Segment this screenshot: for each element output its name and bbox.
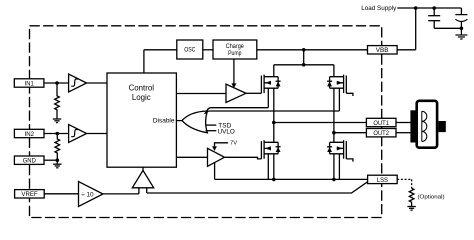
node OUT1 junction xyxy=(272,121,276,125)
svg-text:(Optional): (Optional) xyxy=(418,195,445,201)
op-amp divider div10 xyxy=(79,182,104,207)
svg-text:OUT2: OUT2 xyxy=(373,130,389,137)
wire divider to comparator xyxy=(103,193,139,195)
node bridge rail junction xyxy=(302,63,306,67)
node cap bottom junction xyxy=(460,27,464,31)
wire disable xyxy=(176,120,182,122)
svg-text:UVLO: UVLO xyxy=(218,128,235,135)
dashed package boundary xyxy=(30,26,382,218)
wire Q4 source lead xyxy=(338,154,340,180)
schmitt buffer A2 xyxy=(69,125,87,143)
ground optional xyxy=(407,207,415,211)
wire bridge top rail xyxy=(274,64,334,66)
wire VBB feed vertical xyxy=(415,8,417,50)
wire Q2 gate stub xyxy=(346,93,353,96)
wire buffer2 to control logic xyxy=(87,133,107,135)
wire Load Supply rail xyxy=(397,7,461,9)
node LSS right junction xyxy=(332,178,336,182)
wire IN2 to buffer xyxy=(44,133,69,135)
svg-text:OSC: OSC xyxy=(184,47,196,54)
svg-text:OUT1: OUT1 xyxy=(373,120,389,127)
wire buffer1 to control logic xyxy=(87,82,107,84)
wire Q1 source lead xyxy=(267,88,269,107)
wire hs driver to Q1 gate xyxy=(246,92,262,94)
svg-text:÷ 10: ÷ 10 xyxy=(81,191,94,198)
wire OUT2 line xyxy=(334,132,367,134)
ground supply xyxy=(455,28,467,39)
wire LSS to optional resistor xyxy=(397,179,411,188)
capacitor C1 xyxy=(428,8,440,28)
wire right bridge bus xyxy=(333,65,335,180)
wire VBB to bridge rail xyxy=(303,50,305,65)
pin IN1 xyxy=(14,79,44,87)
pin LSS xyxy=(368,175,398,183)
pin VBB xyxy=(368,46,398,54)
node VBB rail junction xyxy=(302,48,306,52)
svg-text:Pump: Pump xyxy=(228,50,242,57)
capacitor C2 polarized xyxy=(455,8,467,28)
wire comparator input stubs xyxy=(139,188,147,194)
wire Q3 source lead xyxy=(267,154,269,180)
svg-text:Control: Control xyxy=(129,83,155,92)
node IN1 junction xyxy=(55,81,59,85)
svg-text:LSS: LSS xyxy=(377,177,388,184)
node OUT2 junction xyxy=(332,131,336,135)
node load supply junction 1 xyxy=(414,6,418,10)
pin OUT1 xyxy=(366,118,396,126)
transistor Q4 low side right xyxy=(327,140,346,159)
block Control Logic xyxy=(107,73,176,167)
wire cap bottom rail xyxy=(434,27,461,29)
op-amp current comparator xyxy=(132,170,153,187)
node LSS left junction xyxy=(272,178,276,182)
wire line B hs right source xyxy=(205,111,340,114)
svg-text:Charge: Charge xyxy=(226,43,244,50)
op-amp low side driver xyxy=(208,148,225,166)
load motor right tab xyxy=(438,121,445,132)
transistor Q2 high side right xyxy=(327,75,346,94)
wire Q4 gate stub xyxy=(346,159,353,162)
wire line A hs left source xyxy=(207,108,268,111)
wire GND box xyxy=(44,159,57,161)
arrow 7V feed xyxy=(212,146,217,151)
inductor winding xyxy=(422,111,427,141)
pin OUT2 xyxy=(366,129,396,137)
pin GND xyxy=(14,156,44,164)
svg-text:Load Supply: Load Supply xyxy=(361,5,397,12)
resistor R2 pulldown IN2 xyxy=(55,134,60,161)
wire OSC to charge pump xyxy=(203,49,213,51)
pin IN2 xyxy=(14,129,44,137)
block Charge Pump xyxy=(213,40,257,59)
node IN2 junction xyxy=(56,132,60,136)
wire OUT1 to load xyxy=(396,122,410,124)
wire control logic to ls driver xyxy=(176,156,207,158)
gate OR disable xyxy=(182,111,207,133)
wire OUT1 line xyxy=(274,122,367,124)
wire VBB box to supply xyxy=(397,49,416,51)
wire IN1 to buffer xyxy=(44,82,69,84)
wire control logic to hs driver xyxy=(176,93,226,95)
wire 7V feed xyxy=(215,143,229,146)
schmitt buffer A1 xyxy=(69,74,87,92)
svg-text:GND: GND xyxy=(23,158,37,165)
svg-text:7V: 7V xyxy=(230,141,237,147)
node GND junction xyxy=(56,158,60,162)
svg-text:IN1: IN1 xyxy=(25,80,34,87)
transistor Q3 low side left xyxy=(261,140,280,159)
ground GND pin xyxy=(53,160,61,168)
node cap1 top junction xyxy=(432,6,436,10)
load motor body xyxy=(417,101,437,148)
arrow charge pump feed xyxy=(231,83,236,88)
wire charge pump to VBB xyxy=(257,49,368,51)
resistor R1 pulldown IN1 xyxy=(55,83,60,119)
wire charge pump to gate driver xyxy=(233,59,235,84)
svg-text:Logic: Logic xyxy=(132,93,151,102)
block OSC xyxy=(177,40,203,59)
wire sense line xyxy=(147,182,368,193)
svg-text:Disable: Disable xyxy=(153,117,175,124)
svg-text:IN2: IN2 xyxy=(25,131,35,138)
svg-text:VBB: VBB xyxy=(376,47,389,54)
resistor R3 optional sense xyxy=(409,188,414,206)
pin VREF xyxy=(15,190,45,198)
wire TSD stub xyxy=(206,124,217,126)
svg-text:VREF: VREF xyxy=(21,191,37,198)
transistor Q1 high side left xyxy=(261,75,280,94)
wire Q2 source lead xyxy=(338,88,340,111)
wire LSS rail xyxy=(215,178,368,180)
wire OSC to control logic xyxy=(144,50,177,73)
load motor left tab xyxy=(410,110,417,142)
wire left bridge bus xyxy=(273,65,275,180)
op-amp high side driver xyxy=(226,84,246,102)
wire VREF to divider xyxy=(44,193,78,195)
ground IN1 xyxy=(53,119,61,123)
wire ls driver reference xyxy=(214,163,216,180)
wire OUT2 to load xyxy=(396,132,410,134)
wire comparator to control logic xyxy=(142,167,144,170)
wire UVLO stub xyxy=(206,130,217,132)
wire ls driver to Q3 gate xyxy=(225,157,262,159)
